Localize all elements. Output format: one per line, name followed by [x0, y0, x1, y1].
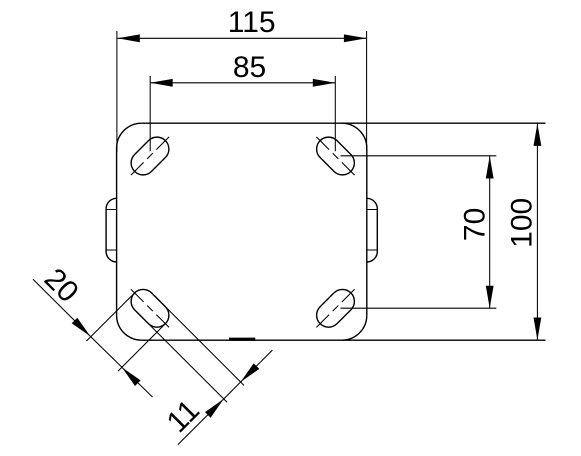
- arrow 85 right: [313, 79, 336, 87]
- svg-text:115: 115: [228, 6, 276, 39]
- arrow 100 bottom: [534, 318, 542, 341]
- centerline slot bottom-left: [131, 289, 169, 327]
- dimension line 11 tail: [241, 350, 273, 382]
- extension line 85 left: [149, 76, 151, 151]
- svg-text:70: 70: [459, 208, 492, 241]
- plate corner arc top-left: [117, 123, 142, 148]
- arrow 20 upper: [72, 318, 91, 337]
- arrow 20 lower: [122, 367, 141, 386]
- arrow 85 left: [150, 79, 173, 87]
- dimension line 85: [150, 82, 335, 84]
- dimension line 115: [117, 37, 366, 39]
- extension line 11 left (slot side extended): [135, 310, 228, 403]
- extension line 70 bottom: [341, 307, 497, 309]
- extension line 115 left: [116, 31, 118, 152]
- dimension line 70: [489, 156, 491, 308]
- dimension line 20 span: [90, 336, 122, 367]
- plate left edge: [116, 148, 118, 315]
- arrow 11 upper: [241, 363, 260, 382]
- left side tab: [106, 198, 117, 262]
- svg-text:85: 85: [233, 51, 266, 84]
- centerline slot top-right: [316, 137, 354, 175]
- slot top-right: [312, 132, 360, 180]
- extension line 115 right: [366, 31, 368, 150]
- arrow 11 lower: [205, 399, 224, 418]
- plate bottom edge with 100-dim bottom extension: [142, 339, 546, 341]
- dimension line 20 tail: [122, 367, 153, 397]
- plate right edge: [366, 148, 368, 315]
- arrow 70 bottom: [486, 286, 494, 309]
- extension line 20 upper (from slot end): [87, 294, 134, 341]
- dimension line 20 leader: [33, 279, 90, 336]
- extension line 85 right: [334, 76, 336, 151]
- arrow 115 left: [117, 34, 140, 42]
- plate corner arc bottom-left: [117, 315, 142, 340]
- plate top edge with 100-dim top extension: [142, 122, 546, 124]
- dimension line 11 span: [224, 382, 241, 399]
- dimension line 11 leader: [178, 399, 224, 445]
- bottom edge tab (edge-on thick segment): [229, 338, 255, 341]
- arrow 70 top: [486, 156, 494, 179]
- extension line 20 lower (from slot end): [118, 324, 165, 371]
- centerline slot bottom-right: [316, 289, 354, 327]
- plate corner arc top-right: [342, 123, 367, 148]
- plate corner arc bottom-right: [342, 315, 367, 340]
- arrow 100 top: [534, 123, 542, 145]
- slot top-left: [126, 132, 174, 180]
- centerline slot top-left: [131, 137, 169, 175]
- svg-text:100: 100: [506, 198, 539, 248]
- slot bottom-right: [312, 284, 360, 332]
- extension line 11 right (slot side extended): [151, 293, 244, 386]
- extension line 70 top: [341, 155, 497, 157]
- arrow 115 right: [344, 34, 367, 42]
- slot bottom-left: [126, 284, 174, 332]
- dimension line 100: [536, 123, 538, 340]
- right side tab: [367, 198, 378, 262]
